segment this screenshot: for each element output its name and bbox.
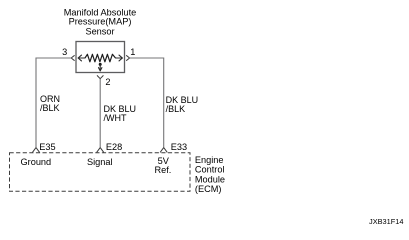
svg-text:3: 3 (62, 47, 67, 57)
ECM dashed box (10, 153, 191, 192)
terminal E28 connector fork (97, 148, 104, 153)
wire DK BLU/WHT vertical (99, 79, 101, 148)
wire ORN/BLK vertical (35, 58, 37, 148)
node label 5V Ref. (154, 156, 171, 175)
wire label DK BLU/BLK (166, 95, 199, 114)
wire pin3 horizontal (36, 57, 71, 59)
svg-text:2: 2 (105, 77, 110, 87)
svg-text:(ECM): (ECM) (195, 184, 222, 194)
label: Manifold Absolute Pressure (MAP) Sensor title (64, 8, 137, 37)
svg-text:/BLK: /BLK (40, 103, 60, 113)
pin 1 connector fork (126, 55, 129, 60)
svg-text:Module: Module (195, 174, 225, 184)
svg-text:Control: Control (195, 165, 225, 175)
terminal E35 connector fork (32, 148, 39, 153)
wiper arrow to pin 2 (99, 64, 102, 71)
svg-text:Ref.: Ref. (154, 165, 171, 175)
svg-text:Ground: Ground (21, 157, 52, 167)
pin 2 connector fork (97, 75, 103, 78)
pin 3 connector fork (71, 55, 74, 60)
svg-text:Pressure(MAP): Pressure(MAP) (69, 17, 132, 27)
resistor zigzag (85, 54, 116, 62)
wire pin1 horizontal (130, 57, 164, 59)
svg-text:/WHT: /WHT (104, 113, 127, 123)
label: Engine Control Module (ECM) (195, 155, 225, 194)
MAP sensor box U1 (76, 42, 125, 73)
svg-text:E33: E33 (171, 142, 187, 152)
wire label ORN/BLK (40, 94, 60, 113)
wiper junction dot (99, 63, 102, 66)
svg-text:JXB31F14: JXB31F14 (369, 217, 404, 226)
potentiometer element (double-headed arrow through resistor) (78, 55, 122, 61)
svg-text:1: 1 (130, 47, 135, 57)
wire label DK BLU/WHT (104, 104, 137, 123)
svg-text:Engine: Engine (195, 155, 224, 165)
svg-text:Signal: Signal (87, 157, 113, 167)
wire DK BLU/BLK vertical (163, 58, 165, 148)
svg-text:Sensor: Sensor (85, 26, 114, 36)
svg-text:E28: E28 (106, 142, 122, 152)
terminal E33 connector fork (160, 148, 167, 153)
svg-text:/BLK: /BLK (166, 104, 186, 114)
svg-text:E35: E35 (39, 142, 55, 152)
